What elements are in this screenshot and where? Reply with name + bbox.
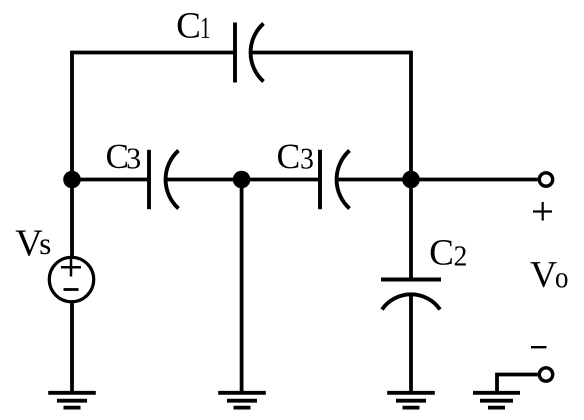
capacitor C3 (left): [149, 150, 179, 209]
wire C1 to right rail: [250, 51, 413, 55]
output terminal plus: [539, 173, 552, 186]
wire right rail top: [409, 53, 413, 180]
wire node B down to ground: [240, 180, 244, 394]
ground (Vs): [48, 393, 96, 408]
wire node B to C3b: [242, 178, 320, 182]
wire node C to output terminal: [411, 178, 538, 182]
label C1.1: [202, 18, 209, 38]
wire C3a to node B: [165, 178, 242, 182]
wire node A down to Vs: [70, 180, 74, 259]
capacitor C3 (right): [320, 150, 350, 209]
label C3a.C: [107, 145, 127, 169]
wire top to C1 left plate: [70, 51, 235, 55]
ground (output): [473, 393, 520, 408]
ground (node B): [218, 393, 266, 408]
label C3b.3: [301, 149, 312, 169]
label Vs.V: [16, 231, 43, 256]
capacitor C1: [235, 23, 264, 83]
node B junction dot: [233, 171, 251, 189]
wire C2 to ground: [409, 295, 413, 394]
output plus sign: [533, 202, 552, 221]
wire output minus terminal to ground: [497, 375, 538, 394]
label C2.2: [455, 246, 466, 265]
wire left rail top (node A to C1 branch): [70, 51, 74, 180]
label C3a.3: [128, 148, 140, 168]
voltage source Vs (circle): [49, 257, 93, 301]
voltage source Vs plus polarity mark: [61, 258, 81, 277]
voltage source Vs minus polarity mark: [64, 288, 79, 291]
capacitor C2: [381, 280, 441, 310]
label C1.C: [178, 13, 199, 38]
output minus sign: [531, 346, 547, 348]
wire C3b to node C: [336, 178, 411, 182]
wire node C down to C2: [409, 180, 413, 280]
output terminal minus: [539, 368, 552, 381]
ground (C2): [387, 393, 435, 408]
node C junction dot: [402, 171, 420, 189]
wire node A to C3a: [72, 178, 149, 182]
label Vo.V: [530, 262, 556, 287]
label C2.C: [431, 240, 452, 265]
label Vo.o: [556, 273, 567, 287]
label C3b.C: [278, 145, 298, 169]
label Vs.s: [41, 239, 51, 254]
node A junction dot: [63, 171, 81, 189]
wire Vs to ground: [70, 302, 74, 394]
